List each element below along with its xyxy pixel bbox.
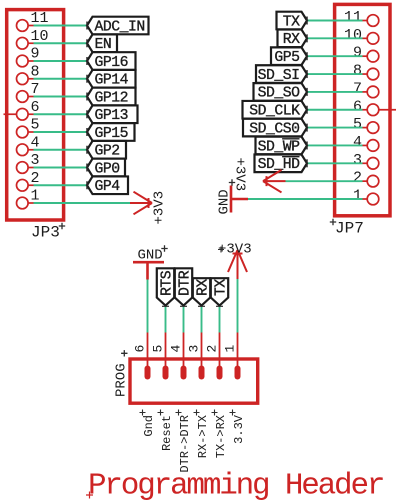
svg-text:7: 7 [353, 80, 362, 97]
svg-text:10: 10 [31, 28, 49, 45]
wire net GP0 [34, 167, 88, 169]
wire net RX [307, 37, 363, 39]
wire net +3V3 (JP3 pin 1) [34, 202, 131, 204]
svg-text:RTS: RTS [159, 270, 175, 296]
PROG pin 1 [223, 333, 241, 380]
wire net RTS (PROG pin 5) [165, 307, 167, 333]
supply symbol GND (bar) [217, 179, 249, 214]
JP3 pin 11 [17, 10, 49, 31]
svg-text:JP3: JP3 [31, 224, 60, 242]
svg-text:11: 11 [31, 10, 49, 27]
svg-text:PROG: PROG [114, 363, 130, 397]
wire net ADC_IN [34, 25, 88, 27]
net label GP16 [87, 52, 136, 71]
svg-text:ADC_IN: ADC_IN [95, 19, 145, 35]
wire net SD_SO [307, 91, 363, 93]
net label SD_SO [254, 83, 308, 102]
svg-text:2: 2 [353, 170, 362, 187]
wire net GP16 [34, 60, 88, 62]
svg-text:8: 8 [31, 63, 40, 80]
net label RX (pointing down) [193, 278, 212, 306]
net label SD_HD [255, 155, 308, 174]
JP3 pin 3 [17, 152, 40, 173]
wire net SD_SI [307, 73, 363, 75]
supply symbol GND (bar, above PROG pin 6) [133, 245, 168, 279]
svg-text:Programming Header: Programming Header [88, 469, 383, 500]
svg-text:2: 2 [205, 345, 220, 353]
wire net +3V3 (JP7 pin 2) [286, 180, 363, 182]
svg-text:4: 4 [169, 345, 184, 353]
svg-text:GP4: GP4 [95, 179, 121, 195]
svg-text:5: 5 [31, 117, 40, 134]
wire net TX [307, 20, 363, 22]
net label SD_CLK [243, 101, 308, 120]
supply symbol +3V3 (right-pointing arrow) [130, 191, 168, 225]
net label GP14 [87, 70, 136, 89]
svg-text:5: 5 [151, 345, 166, 353]
JP7 pin 8 [353, 63, 379, 80]
svg-text:DTR: DTR [177, 270, 193, 296]
svg-text:EN: EN [95, 37, 112, 53]
PROG pin 6 name Gnd [140, 410, 156, 437]
svg-text:3: 3 [187, 345, 202, 353]
programming header PROG body [130, 359, 258, 403]
net label GP0 [87, 159, 125, 178]
PROG pin 4 name DTR->DTR [176, 410, 192, 473]
net label SD_WP [256, 137, 308, 156]
svg-text:9: 9 [353, 45, 362, 62]
svg-text:GP12: GP12 [95, 90, 129, 106]
PROG pin 1 name 3.3V [230, 410, 246, 444]
svg-text:4: 4 [353, 134, 362, 151]
wire net GND (PROG pin 6) [147, 280, 149, 333]
net label TX [277, 12, 308, 31]
wire net TX (PROG pin 2) [219, 307, 221, 333]
net label GP12 [87, 88, 136, 107]
PROG pin 4 [169, 333, 187, 380]
svg-text:DTR->DTR: DTR->DTR [178, 415, 192, 473]
PROG pin 3 name RX->TX [194, 410, 210, 459]
svg-text:6: 6 [353, 98, 362, 115]
svg-text:6: 6 [133, 345, 148, 353]
JP7 pin 6 [353, 98, 396, 115]
JP3 pin 4 [17, 134, 40, 155]
svg-text:9: 9 [31, 46, 40, 63]
svg-text:TX: TX [213, 279, 229, 296]
wire net GP4 [34, 184, 88, 186]
title Programming Header [86, 469, 383, 500]
wire net GND (JP7 pin 1) [248, 198, 363, 200]
JP7 pin 4 [353, 134, 379, 151]
JP7 pin 1 [353, 188, 379, 205]
svg-text:SD_CS0: SD_CS0 [249, 121, 299, 137]
svg-text:6: 6 [31, 99, 40, 116]
svg-text:GND: GND [138, 248, 163, 264]
JP3 pin 2 [17, 170, 40, 191]
svg-text:8: 8 [353, 63, 362, 80]
PROG reference label [114, 350, 130, 397]
supply symbol +3V3 (left-pointing arrow) [232, 158, 286, 193]
svg-text:5: 5 [353, 116, 362, 133]
JP7 reference label [330, 219, 364, 238]
svg-text:SD_SO: SD_SO [258, 86, 301, 102]
JP7 pin 9 [353, 45, 379, 62]
svg-text:TX: TX [283, 14, 300, 30]
svg-text:GP0: GP0 [95, 161, 120, 177]
net label ADC_IN [87, 17, 149, 36]
svg-text:3.3V: 3.3V [232, 414, 246, 444]
net label DTR (pointing down) [175, 268, 194, 306]
svg-text:GP14: GP14 [95, 73, 129, 89]
svg-text:TX->RX: TX->RX [214, 415, 228, 458]
svg-text:Reset: Reset [160, 415, 174, 451]
svg-text:7: 7 [31, 81, 40, 98]
wire net GP13 [34, 113, 88, 115]
JP3 pin 6 [4, 99, 40, 120]
svg-text:RX: RX [195, 279, 211, 296]
svg-text:SD_WP: SD_WP [258, 139, 301, 155]
svg-text:SD_CLK: SD_CLK [249, 104, 300, 120]
connector JP7 body [335, 4, 390, 215]
wire net GP12 [34, 96, 88, 98]
svg-text:3: 3 [353, 152, 362, 169]
svg-text:GP15: GP15 [95, 126, 129, 142]
net label GP4 [87, 176, 128, 195]
wire net GP14 [34, 78, 88, 80]
wire net GP5 [307, 55, 363, 57]
net label SD_SI [256, 65, 307, 84]
JP7 pin 7 [353, 80, 379, 97]
JP3 pin 8 [17, 63, 40, 84]
PROG pin 3 [187, 333, 205, 380]
wire net GP15 [34, 131, 88, 133]
svg-text:Gnd: Gnd [142, 415, 156, 437]
svg-text:GP5: GP5 [274, 50, 299, 66]
PROG pin 5 name Reset [158, 410, 174, 452]
svg-text:+3V3: +3V3 [232, 158, 248, 192]
svg-text:1: 1 [223, 345, 238, 353]
wire net DTR (PROG pin 4) [183, 307, 185, 333]
svg-text:RX->TX: RX->TX [196, 415, 210, 458]
PROG pin 2 [205, 333, 223, 380]
net label TX (pointing down) [211, 278, 230, 306]
connector JP3 body [7, 10, 64, 220]
svg-text:10: 10 [344, 27, 362, 44]
net label SD_CS0 [243, 119, 307, 138]
JP3 pin 7 [17, 81, 40, 102]
JP7 pin 3 [353, 152, 379, 169]
PROG pin 2 name TX->RX [212, 410, 228, 459]
net label RX [278, 30, 308, 49]
svg-text:SD_SI: SD_SI [258, 68, 300, 84]
JP7 pin 5 [353, 116, 379, 133]
wire net SD_HD [307, 162, 363, 164]
net label GP15 [87, 123, 135, 142]
svg-text:4: 4 [31, 134, 40, 151]
net label GP13 [87, 105, 138, 124]
JP3 pin 10 [17, 28, 49, 49]
net label GP2 [87, 141, 126, 160]
svg-text:GND: GND [217, 189, 233, 214]
net label GP5 [271, 47, 307, 66]
wire net +3V3 (PROG pin 1) [237, 279, 239, 333]
svg-text:JP7: JP7 [335, 220, 364, 238]
svg-text:+3V3: +3V3 [152, 191, 168, 225]
wire net EN [34, 42, 88, 44]
JP7 pin 2 [353, 170, 379, 187]
wire net SD_CLK [307, 109, 363, 111]
JP7 pin 11 [344, 9, 379, 26]
svg-text:1: 1 [353, 188, 362, 205]
svg-text:GP2: GP2 [95, 144, 120, 160]
JP3 pin 9 [17, 46, 40, 67]
svg-text:1: 1 [31, 188, 40, 205]
wire net SD_WP [307, 144, 363, 146]
JP3 reference label [31, 223, 65, 242]
JP3 pin 1 [17, 188, 40, 209]
svg-text:GP13: GP13 [95, 108, 129, 124]
supply symbol +3V3 (up-pointing arrow) [218, 242, 252, 280]
svg-text:GP16: GP16 [95, 55, 129, 71]
net label EN [87, 34, 117, 53]
svg-text:11: 11 [344, 9, 362, 26]
PROG pin 5 [151, 333, 169, 380]
JP3 pin 5 [17, 117, 40, 138]
PROG pin 6 [133, 333, 151, 380]
svg-text:RX: RX [283, 32, 300, 48]
JP7 pin 10 [344, 27, 379, 44]
wire net SD_CS0 [307, 127, 363, 129]
wire net RX (PROG pin 3) [201, 307, 203, 333]
wire net GP2 [34, 149, 88, 151]
svg-text:2: 2 [31, 170, 40, 187]
net label RTS (pointing down) [157, 268, 176, 306]
svg-text:3: 3 [31, 152, 40, 169]
